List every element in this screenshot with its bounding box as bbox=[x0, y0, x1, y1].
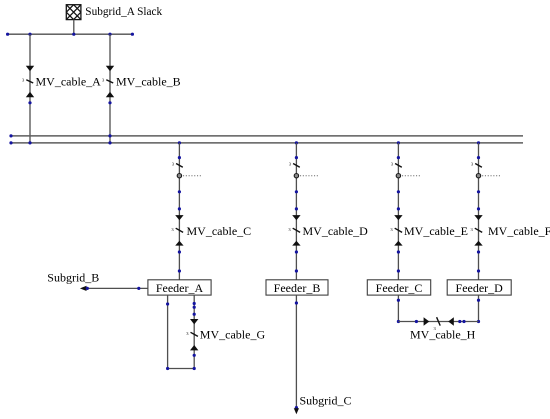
cable MV_cable_E symbol bbox=[390, 207, 402, 272]
junction dots busbar bbox=[9, 134, 480, 144]
svg-text:MV_cable_D: MV_cable_D bbox=[303, 224, 369, 238]
svg-text:Subgrid_C: Subgrid_C bbox=[300, 394, 352, 408]
feeder box Feeder_B bbox=[266, 280, 328, 295]
wire feeder bay 3 bbox=[397, 143, 399, 280]
switch bay 1 bbox=[172, 156, 183, 167]
svg-text:Feeder_C: Feeder_C bbox=[376, 281, 423, 295]
svg-text:MV_cable_E: MV_cable_E bbox=[404, 224, 468, 238]
feeder box Feeder_C bbox=[367, 280, 430, 295]
svg-text:MV_cable_H: MV_cable_H bbox=[410, 328, 476, 342]
measurement point bay 4 bbox=[476, 174, 500, 194]
svg-text:Subgrid_A Slack: Subgrid_A Slack bbox=[85, 6, 162, 18]
busbar upper line bbox=[11, 135, 523, 137]
cable MV_cable_H symbol bbox=[415, 317, 466, 331]
wire feeder bay 4 bbox=[478, 143, 480, 280]
svg-text:Subgrid_B: Subgrid_B bbox=[47, 270, 99, 284]
feeder box Feeder_D bbox=[447, 280, 511, 295]
svg-text:Feeder_D: Feeder_D bbox=[456, 281, 504, 295]
svg-text:Feeder_B: Feeder_B bbox=[274, 281, 321, 295]
wire cable H run bbox=[398, 321, 478, 323]
feeder box Feeder_A bbox=[148, 280, 211, 295]
svg-text:MV_cable_F: MV_cable_F bbox=[488, 224, 550, 238]
wire feeder bay 1 bbox=[178, 143, 180, 280]
svg-text:MV_cable_B: MV_cable_B bbox=[116, 75, 181, 89]
cable MV_cable_A symbol bbox=[22, 66, 34, 105]
wire Feeder_C bottom stub bbox=[397, 295, 400, 323]
cable MV_cable_D symbol bbox=[288, 207, 300, 272]
wire Subgrid_B link bbox=[80, 286, 148, 291]
switch bay 2 bbox=[289, 156, 300, 167]
cable MV_cable_C symbol bbox=[171, 207, 183, 272]
svg-text:MV_cable_G: MV_cable_G bbox=[200, 328, 266, 342]
external grid U_ext Subgrid_A Slack bbox=[66, 5, 81, 20]
wire ext-grid stem bbox=[73, 20, 75, 35]
wire cable B column bbox=[109, 34, 111, 143]
wire Feeder_D bottom stub bbox=[477, 295, 480, 323]
junction dots top bus bbox=[6, 33, 134, 36]
wire Feeder_A right stub bbox=[193, 295, 195, 368]
wire Subgrid_C link bbox=[294, 295, 299, 414]
cable MV_cable_F symbol bbox=[471, 207, 483, 272]
cable MV_cable_B symbol bbox=[102, 66, 114, 105]
cable MV_cable_G symbol bbox=[186, 302, 198, 357]
measurement point bay 2 bbox=[294, 174, 318, 194]
wire feeder bay 2 bbox=[295, 143, 297, 280]
switch bay 3 bbox=[391, 156, 402, 167]
busbar lower line bbox=[11, 142, 523, 144]
svg-text:MV_cable_A: MV_cable_A bbox=[36, 75, 102, 89]
measurement point bay 3 bbox=[396, 174, 420, 194]
node top terminal bus bbox=[8, 33, 133, 35]
svg-text:Feeder_A: Feeder_A bbox=[156, 281, 204, 295]
svg-text:MV_cable_C: MV_cable_C bbox=[187, 224, 252, 238]
measurement point bay 1 bbox=[177, 174, 201, 194]
wire cable A column bbox=[29, 34, 31, 143]
wire Feeder_A loop bottom bbox=[166, 367, 196, 370]
wire Feeder_A left stub bbox=[166, 295, 169, 368]
switch bay 4 bbox=[471, 156, 482, 167]
